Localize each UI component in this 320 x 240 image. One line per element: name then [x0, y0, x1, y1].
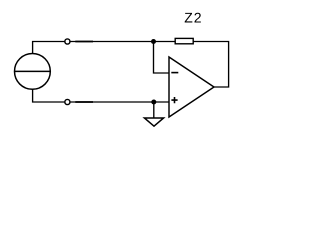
- wire thick overlap segment top: [75, 41, 93, 43]
- wire junction to resistor Z2 left lead: [154, 41, 177, 43]
- wire top from terminal to junction: [70, 41, 153, 43]
- wire ground stem: [153, 102, 155, 118]
- junction node at feedback/top wire: [151, 39, 156, 44]
- terminal bottom: [65, 99, 70, 104]
- source V1 circle with bar: [15, 54, 51, 90]
- wire bottom-left from source bottom to terminal: [33, 89, 65, 102]
- wire thick overlap segment bottom: [75, 101, 93, 103]
- op-amp inverting minus sign: [171, 72, 178, 74]
- label Z2: [185, 13, 201, 23]
- op-amp non-inverting plus sign: [171, 97, 177, 103]
- wire bottom from terminal to non-inverting input: [70, 101, 169, 103]
- wire junction down and into inverting input: [154, 42, 170, 74]
- resistor Z2 body: [175, 38, 193, 43]
- terminal top: [65, 39, 70, 44]
- wire resistor right lead to feedback corner, down to output, to op-amp apex: [193, 42, 229, 88]
- wire top-left from source top to terminal: [33, 42, 65, 54]
- junction node at non-inverting/ground: [151, 100, 156, 105]
- op-amp U1 triangle: [169, 57, 214, 117]
- ground symbol triangle: [144, 118, 163, 126]
